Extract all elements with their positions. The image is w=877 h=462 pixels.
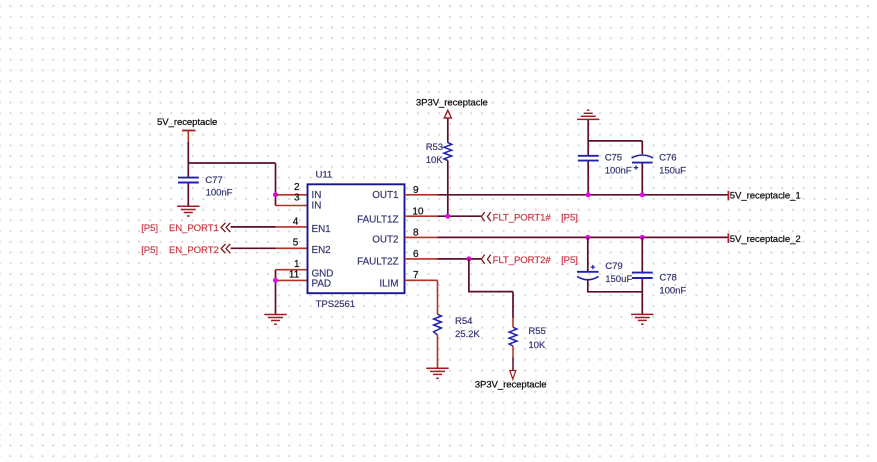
svg-text:1: 1	[294, 259, 300, 270]
svg-text:C77: C77	[205, 175, 222, 186]
svg-text:2: 2	[294, 182, 300, 193]
resistor R54	[434, 314, 481, 340]
svg-text:10K: 10K	[426, 155, 444, 166]
svg-text:25.2K: 25.2K	[455, 329, 480, 340]
svg-text:[P5]: [P5]	[561, 255, 578, 266]
port FLT_PORT1#	[481, 212, 578, 223]
junction node C79 / OUT2 net	[585, 235, 590, 240]
resistor R53	[426, 142, 452, 166]
capacitor C79 (polarized)	[577, 237, 642, 291]
junction node at IN pin 2	[273, 192, 278, 197]
svg-text:4: 4	[293, 216, 299, 227]
junction node FAULT2Z / R55	[466, 256, 471, 261]
svg-text:7: 7	[413, 270, 419, 281]
ground below R54	[426, 368, 448, 378]
power flag 5V_receptacle	[157, 117, 217, 142]
svg-text:[P5]: [P5]	[141, 245, 158, 256]
port EN_PORT2	[141, 244, 230, 256]
svg-text:FLT_PORT2#: FLT_PORT2#	[493, 255, 552, 266]
port EN_PORT1	[141, 223, 230, 234]
wire R53 down to FAULT1Z net	[447, 161, 449, 217]
svg-text:OUT2: OUT2	[372, 235, 398, 246]
ground below C77	[177, 206, 199, 216]
pin numbers left	[289, 182, 300, 280]
svg-text:C75: C75	[605, 152, 622, 163]
wire ILIM to R54	[437, 280, 439, 314]
ground below GND/PAD	[264, 315, 286, 325]
junction node C75 / OUT1 net	[586, 192, 591, 197]
power flag 3P3V_receptacle (top)	[416, 98, 488, 118]
capacitor C75	[578, 152, 632, 194]
wire EN_PORT2 to pin 5	[231, 247, 308, 249]
svg-text:IN: IN	[312, 201, 322, 212]
junction node C76 / OUT1 net	[640, 192, 645, 197]
svg-text:PAD: PAD	[312, 278, 332, 289]
wire R54 down to ground	[437, 335, 439, 368]
wire ground to C75/C76 branch	[588, 120, 642, 155]
wire 5V net: power flag down, branch right to IC IN pins	[188, 142, 275, 206]
svg-text:5: 5	[293, 238, 299, 249]
wire 3P3V to R53	[447, 119, 449, 143]
svg-text:R55: R55	[528, 326, 545, 337]
op-amp U11 TPS2561 body	[308, 169, 405, 310]
svg-text:C78: C78	[659, 273, 676, 284]
wire GND/PAD pins down to ground	[276, 270, 308, 314]
svg-text:150uF: 150uF	[659, 165, 686, 176]
svg-text:[P5]: [P5]	[561, 212, 578, 223]
svg-text:FAULT1Z: FAULT1Z	[357, 214, 398, 225]
svg-text:IN: IN	[312, 190, 322, 201]
wire pin stubs IN1/IN2 (pins 2,3)	[276, 195, 308, 206]
svg-text:3P3V_receptacle: 3P3V_receptacle	[475, 380, 547, 391]
wire EN_PORT1 to pin 4	[231, 226, 308, 228]
svg-text:10K: 10K	[528, 340, 546, 351]
wire OUT1 net 5V_receptacle_1	[438, 191, 729, 201]
junction node at PAD pin 11	[273, 278, 278, 283]
svg-text:5V_receptacle_1: 5V_receptacle_1	[730, 191, 801, 202]
svg-text:TPS2561: TPS2561	[316, 299, 355, 310]
wire FAULT1Z net to port	[438, 215, 482, 217]
capacitor C76 (polarized)	[632, 152, 687, 194]
svg-text:OUT1: OUT1	[372, 190, 399, 201]
svg-text:EN_PORT1: EN_PORT1	[169, 223, 219, 234]
junction node C78 / OUT2 net	[640, 235, 645, 240]
svg-text:[P5]: [P5]	[141, 223, 158, 234]
svg-text:3P3V_receptacle: 3P3V_receptacle	[416, 98, 488, 109]
svg-text:11: 11	[289, 269, 300, 280]
svg-text:100nF: 100nF	[206, 187, 233, 198]
svg-text:C76: C76	[659, 152, 676, 163]
port FLT_PORT2#	[481, 255, 578, 266]
svg-text:100nF: 100nF	[659, 285, 686, 296]
svg-text:EN2: EN2	[312, 245, 331, 256]
resistor R55	[509, 318, 546, 371]
pin names left	[312, 190, 334, 289]
svg-text:150uF: 150uF	[605, 274, 632, 285]
wire FAULT2Z down to R55	[469, 259, 513, 318]
capacitor C77	[178, 175, 233, 206]
svg-text:5V_receptacle: 5V_receptacle	[157, 117, 217, 128]
svg-text:EN_PORT2: EN_PORT2	[169, 245, 219, 256]
svg-text:5V_receptacle_2: 5V_receptacle_2	[730, 234, 801, 245]
svg-text:ILIM: ILIM	[379, 278, 398, 289]
wire FAULT2Z net to port	[438, 258, 482, 260]
svg-text:FLT_PORT1#: FLT_PORT1#	[493, 212, 552, 223]
ground below C78	[631, 314, 653, 324]
svg-text:FAULT2Z: FAULT2Z	[357, 256, 398, 267]
pin stubs right (9,10,8,6,7)	[405, 195, 438, 280]
svg-text:R54: R54	[455, 316, 473, 327]
svg-text:EN1: EN1	[312, 224, 332, 235]
junction node FAULT1Z / R53	[445, 214, 450, 219]
pin names right	[357, 190, 399, 289]
wire OUT2 net 5V_receptacle_2	[438, 233, 729, 243]
power flag 3P3V_receptacle (bottom, arrow down)	[475, 371, 547, 391]
svg-text:U11: U11	[316, 169, 333, 180]
svg-text:3: 3	[294, 193, 300, 204]
svg-text:C79: C79	[605, 261, 622, 272]
svg-text:100nF: 100nF	[605, 165, 632, 176]
ground (inverted) above C75/C76	[577, 110, 599, 119]
pin numbers right	[412, 185, 424, 281]
svg-text:R53: R53	[426, 142, 443, 153]
capacitor C78	[632, 237, 687, 314]
